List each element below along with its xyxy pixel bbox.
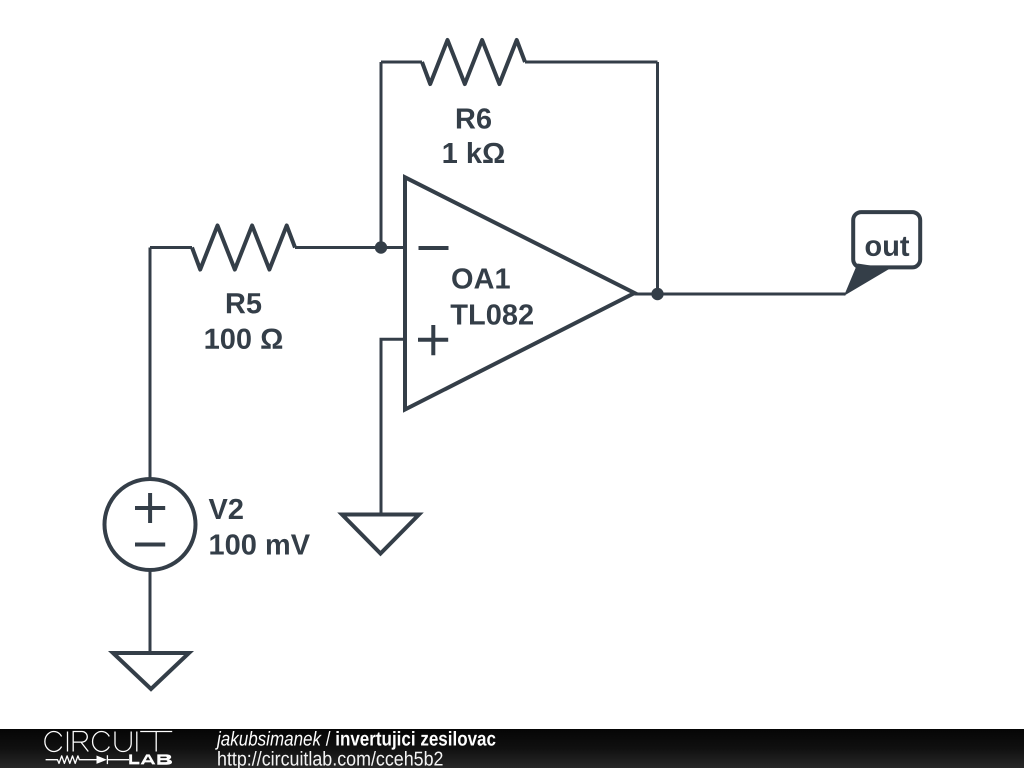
V2 minus symbol xyxy=(135,543,165,547)
footer url line xyxy=(217,748,443,768)
op-amp minus symbol xyxy=(419,246,449,250)
logo letter I xyxy=(136,732,138,752)
voltage source V2 circle xyxy=(105,479,196,570)
op-amp OA1 triangle xyxy=(405,177,635,409)
wire feedback top left xyxy=(381,61,422,64)
label R6 xyxy=(457,108,491,129)
wire feedback left vertical xyxy=(380,62,383,248)
wire input left horizontal xyxy=(150,246,192,249)
wire source top xyxy=(149,248,152,480)
logo text LAB xyxy=(129,754,172,764)
logo letter U xyxy=(115,732,131,752)
net label out xyxy=(866,237,910,256)
ground symbol right xyxy=(342,515,419,554)
ground symbol left xyxy=(113,653,189,689)
value 1 kOhm xyxy=(444,142,505,163)
svg-text:http://circuitlab.com/cceh5b2: http://circuitlab.com/cceh5b2 xyxy=(217,748,443,768)
logo letter C xyxy=(93,732,110,752)
out flag tail xyxy=(844,264,890,296)
value TL082 xyxy=(451,304,533,325)
junction node output xyxy=(651,288,663,300)
label R5 xyxy=(227,293,261,313)
CircuitLab logo xyxy=(0,729,200,768)
wire inverting input row xyxy=(295,246,405,249)
wire output xyxy=(635,293,846,296)
junction node inverting input xyxy=(375,241,387,253)
value 100 mV xyxy=(210,534,310,555)
logo resistor-diode glyph xyxy=(46,755,129,764)
wire feedback right vertical xyxy=(656,62,659,294)
wire feedback top right xyxy=(525,61,658,64)
footer bar xyxy=(0,729,1024,768)
out flag box xyxy=(853,212,920,267)
logo letter C xyxy=(45,732,62,752)
logo letter R xyxy=(73,732,88,752)
svg-text:jakubsimanek / invertujici zes: jakubsimanek / invertujici zesilovac xyxy=(214,729,496,750)
resistor R5 xyxy=(192,226,295,270)
wire source bottom xyxy=(149,571,152,654)
op-amp plus symbol xyxy=(418,325,448,355)
wire non-inverting input xyxy=(381,339,405,514)
logo letter I xyxy=(67,732,69,752)
resistor R6 xyxy=(422,40,525,84)
footer credit line xyxy=(214,728,496,750)
label V2 xyxy=(209,499,243,519)
V2 plus symbol xyxy=(135,493,165,523)
logo diode triangle xyxy=(97,756,107,764)
value 100 Ohm xyxy=(206,329,283,350)
label OA1 xyxy=(452,268,510,289)
logo letter T xyxy=(140,732,172,752)
